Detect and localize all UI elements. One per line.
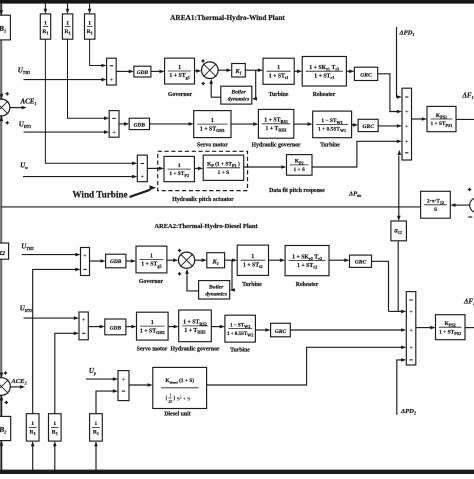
svg-text:1 + STRS1: 1 + STRS1	[264, 118, 288, 125]
svg-text:1 + S: 1 + S	[293, 167, 304, 173]
wire: 1/R1 a to sum S13 minus input	[45, 39, 132, 163]
wire: S11 to GDB1	[116, 70, 129, 72]
svg-text:Governor: Governor	[139, 279, 164, 285]
wire: pitch block to Kp block	[194, 167, 198, 169]
svg-text:ΔF1: ΔF1	[462, 92, 474, 101]
sign + (B2 into ACE2)	[5, 401, 8, 404]
wire: X2 to K1 block (area2)	[195, 259, 203, 261]
sign + (tie into ACE2)	[4, 371, 7, 374]
sum SD (diesel input)	[118, 371, 129, 401]
wire: Governor1 to mixer X1	[195, 70, 198, 72]
svg-text:1 + SKr1 Tr1: 1 + SKr1 Tr1	[309, 65, 339, 72]
wire: Turbine2 to Reheater2	[269, 259, 281, 261]
block K1 (area1)	[232, 64, 246, 78]
svg-text:GDB: GDB	[137, 70, 149, 76]
svg-text:1 + S: 1 + S	[218, 170, 229, 176]
svg-text:1 − STW1: 1 − STW1	[321, 118, 342, 125]
svg-text:Governor: Governor	[168, 92, 193, 98]
svg-text:1 + STt2: 1 + STt2	[243, 262, 263, 269]
svg-text:1 + TRH1: 1 + TRH1	[265, 126, 286, 133]
arrowhead: left bus tie into ACE1 bottom	[0, 116, 3, 121]
wire: dashed box output to data-fit block	[244, 166, 282, 168]
wire: KP2 output to right edge (dF2)	[465, 327, 474, 329]
wire: Reheater1 to GRC1	[346, 70, 350, 72]
wire: HydGov1 to hydro Turbine 1	[294, 123, 308, 125]
wire: U_TH1 into sum S11 plus input	[24, 79, 102, 81]
svg-text:1 + STt1: 1 + STt1	[269, 74, 289, 81]
wire: top bus drop into 1/R1 b	[67, 4, 69, 10]
sum S11 (thermal governor input, area1)	[107, 58, 117, 85]
block GDB4 (governor dead band, hydro area2)	[105, 319, 126, 335]
wire: Boiler dynamics area2 output up into X2 bottom	[187, 273, 199, 291]
wire: Turbine1 to Reheater1	[294, 70, 298, 72]
svg-text:48: 48	[168, 399, 172, 404]
svg-text:UTH1: UTH1	[18, 67, 31, 76]
sum block sum1 (area1 generation - load)	[402, 88, 412, 160]
svg-text:1: 1	[277, 65, 280, 71]
svg-text:ΔPD2: ΔPD2	[400, 408, 416, 416]
block hydro Turbine area2 (1-STW2)/(1+0.5STW2)	[225, 315, 256, 342]
sign + (B1 into ACE1)	[6, 92, 9, 95]
wire: tie junction down to a12 block	[398, 207, 400, 217]
wire: hydro Turbine2 to GRC4	[255, 329, 266, 331]
svg-text:UHY1: UHY1	[19, 121, 32, 130]
wire: GRC1 right and down into sum1 second input	[378, 74, 398, 112]
svg-text:ΔPtie: ΔPtie	[348, 191, 361, 199]
top border bar (area-1 frequency feedback bus)	[0, 0, 474, 4]
block GDB2 (governor dead band, hydro area1)	[129, 118, 149, 129]
svg-text:GDB: GDB	[110, 326, 122, 332]
arrow: Wind Turbine pointer to dashed box	[130, 190, 151, 197]
block Hydraulic governor area1 (1+STRS1)/(1+TRH1)	[258, 109, 293, 138]
svg-text:1: 1	[251, 254, 254, 260]
svg-text:ACE1: ACE1	[19, 98, 36, 107]
wire: bottom bus up into 1/R1 e	[54, 446, 56, 471]
wire: S21 to GDB3	[90, 260, 102, 262]
svg-text:Uw: Uw	[20, 161, 28, 170]
svg-text:+: +	[82, 317, 86, 324]
sign - on tie circle	[468, 216, 472, 218]
block GDB1 (governor dead band, thermal area1)	[134, 66, 151, 77]
wire: K1 area2 to Turbine2 with boiler tap	[225, 259, 233, 261]
svg-text:Diesel unit: Diesel unit	[164, 411, 190, 417]
dashed box Hydraulic pitch actuator	[158, 151, 248, 190]
svg-text:H2: H2	[0, 251, 5, 257]
svg-text:1 + STg1: 1 + STg1	[169, 73, 189, 80]
block B1 (clipped at left edge)	[0, 15, 10, 40]
wire: GRC2 to sum1 third input	[378, 125, 397, 127]
wire: hydro Turbine1 to GRC2	[352, 124, 354, 126]
block a12	[391, 221, 407, 241]
sum block sum2 (area2 generation - load)	[406, 292, 416, 365]
svg-text:dynamics: dynamics	[228, 97, 250, 103]
block Boiler dynamics (area2)	[199, 281, 230, 299]
wire: GDB3 to Governor2	[126, 260, 132, 262]
svg-text:UHY2: UHY2	[20, 305, 33, 314]
wire: 1/R1 f up to SD minus input	[96, 391, 114, 414]
svg-text:Turbine: Turbine	[320, 143, 340, 149]
svg-text:GRC: GRC	[360, 72, 372, 78]
svg-text:1: 1	[178, 65, 181, 71]
wire: 1/R1 b to sum S12 minus input	[68, 39, 105, 118]
arrowhead: B1 output down into ACE1 top	[0, 94, 3, 99]
wire: tie circle into T12 block	[455, 204, 470, 206]
arrowhead: left bus down into ACE2 top	[0, 373, 3, 378]
wire: top bus drop into B1	[0, 4, 2, 11]
wire: X1 to K1 block (area1)	[218, 69, 227, 71]
sign + (tie into ACE1)	[6, 121, 9, 124]
svg-text:1: 1	[31, 421, 34, 427]
wire: GDB4 to Servo motor 2	[126, 326, 132, 328]
svg-text:Servo motor: Servo motor	[137, 347, 168, 353]
wire: Diesel output right and up into sum2 fourth input	[207, 347, 402, 385]
svg-text:Turbine: Turbine	[230, 348, 250, 354]
svg-text:1 − STW2: 1 − STW2	[230, 323, 250, 329]
wire: tie-line up into sum1 bottom minus	[398, 156, 400, 207]
left edge vertical wire (B1-ACE1-tie-ACE2-B2 bus)	[0, 4, 2, 470]
svg-text:1 + SKr2 Tr2: 1 + SKr2 Tr2	[292, 254, 322, 261]
block Diesel unit Kdiesel(1+S)/((1/48)S^2+S)	[153, 367, 207, 408]
wire: U_HY1 into sum S12 plus input	[24, 131, 105, 133]
wire: SD to Diesel unit block	[129, 384, 148, 386]
wire: B2 up into ACE2 bottom	[1, 400, 3, 417]
block Hydraulic governor area2 (1+STRS2)/(1+TRH2)	[179, 310, 212, 342]
wire: KP1 output to right edge (dF1)	[456, 118, 474, 120]
wire: top bus drop into 1/R1 c	[89, 4, 91, 10]
block GRC2 (area1 hydro)	[358, 119, 378, 131]
block GRC1 (area1 thermal)	[354, 67, 377, 80]
block Servo motor area2 1/(1+STGH2)	[137, 312, 169, 340]
block KP1/(1+STP1) power system area1	[427, 106, 456, 131]
svg-text:1 + STGH1: 1 + STGH1	[200, 126, 225, 133]
wire: K1 to Turbine1 with boiler tap junction	[245, 69, 258, 71]
wire: U_p into diesel sum plus input	[86, 378, 114, 380]
svg-text:): )	[173, 395, 175, 402]
svg-text:1 + STP2: 1 + STP2	[169, 171, 189, 178]
svg-text:1 + STPS2: 1 + STPS2	[439, 329, 461, 336]
svg-text:+: +	[83, 253, 87, 260]
block GDB3 (governor dead band, thermal area2)	[106, 254, 126, 268]
svg-text:GRC: GRC	[362, 124, 374, 130]
wire: GDB2 to Servo motor 1	[150, 123, 190, 125]
wire: top bus drop into 1/R1 a	[44, 4, 46, 10]
svg-text:Wind Turbine: Wind Turbine	[72, 190, 127, 200]
wire: tie line long horizontal to left edge	[1, 206, 420, 208]
block Boiler dynamics (area1)	[221, 86, 252, 104]
block GRC3 (area2 thermal)	[350, 255, 372, 267]
wire: U_TH2 into sum S21 plus input	[22, 254, 76, 256]
wire: GRC3 right and down to merge point	[372, 261, 389, 311]
block Reheater1 (1+SKr1Tr1)/(1+STr1)	[302, 57, 346, 87]
svg-text:dynamics: dynamics	[205, 292, 227, 298]
svg-text:Data fit pitch response: Data fit pitch response	[269, 188, 325, 194]
svg-text:R1: R1	[93, 430, 99, 437]
svg-text:+: +	[140, 174, 144, 181]
svg-text:1: 1	[66, 20, 69, 26]
svg-text:Boiler: Boiler	[230, 90, 246, 96]
block Turbine2 1/(1+STt2)	[237, 245, 268, 275]
svg-text:1: 1	[88, 20, 91, 26]
wire: S13 into dashed hydraulic pitch actuator box	[147, 167, 159, 169]
svg-text:ACE2: ACE2	[10, 378, 26, 386]
block K1 (area2)	[207, 253, 225, 268]
svg-text:1: 1	[178, 163, 181, 169]
svg-text:1 + 0.5STW2: 1 + 0.5STW2	[227, 332, 254, 338]
wire: GDB1 to Governor1	[151, 70, 160, 72]
svg-text:+: +	[405, 109, 409, 116]
wire: data-fit block right, up, into sum1 fourth input	[312, 141, 398, 167]
wire: sum2 output to KP2 block	[416, 327, 431, 329]
svg-text:S2 + S: S2 + S	[177, 396, 191, 403]
wire: U_w into sum S13 plus input	[23, 176, 133, 178]
svg-text:Up: Up	[89, 367, 96, 376]
block data fit KP2/(1+S)	[287, 155, 313, 176]
block GRC4 (area2 hydro)	[271, 323, 291, 337]
block Governor2 1/(1+STg2)	[136, 246, 167, 273]
svg-text:1 + STg2: 1 + STg2	[141, 262, 161, 269]
svg-text:GDB: GDB	[110, 259, 122, 265]
svg-text:1 + STRS2: 1 + STRS2	[183, 320, 207, 327]
wire: sum1 output to KP1 block	[412, 118, 423, 120]
block Reheater2 (1+SKr2Tr2)/(1+STr2)	[285, 246, 329, 276]
node tie summing circle (clipped at right edge)	[470, 198, 474, 213]
mixer X2 (governor + boiler, area2)	[179, 252, 195, 268]
wire: 1/R1 d up to S21 minus input	[33, 269, 76, 413]
sum S21 (thermal governor input, area2)	[81, 248, 90, 276]
sign + on tie circle	[468, 188, 471, 191]
sum S22 (hydro governor input, area2)	[79, 312, 88, 340]
wire: S12 to GDB2	[119, 123, 125, 125]
svg-text:Hydraulic pitch actuator: Hydraulic pitch actuator	[172, 197, 234, 203]
svg-text:Boiler: Boiler	[208, 284, 224, 290]
wire: Boiler dynamics output up into X1 bottom	[211, 83, 221, 97]
svg-text:1 + STGH2: 1 + STGH2	[140, 328, 165, 335]
sign + (boiler into X1)	[202, 82, 205, 85]
svg-text:1 + 0.5STW1: 1 + 0.5STW1	[318, 127, 346, 134]
svg-text:Turbine: Turbine	[269, 92, 289, 98]
svg-text:Reheater: Reheater	[296, 282, 319, 288]
block hydro Turbine area1 (1-STW1)/(1+0.5STW1)	[313, 111, 352, 138]
svg-text:AREA2:Thermal-Hydro-Diesel Pla: AREA2:Thermal-Hydro-Diesel Plant	[154, 223, 258, 230]
wire: 1/R1 e up to S22 minus input	[55, 333, 75, 413]
svg-text:KP2: KP2	[295, 159, 304, 166]
svg-text:1: 1	[53, 421, 56, 427]
svg-text:GRC: GRC	[355, 260, 367, 266]
svg-text:1: 1	[151, 320, 154, 326]
svg-text:ΔPD1: ΔPD1	[399, 30, 415, 38]
wire: HydGov2 to hydro Turbine 2	[211, 326, 220, 328]
wire: tap down into Boiler dynamics (area1) right side	[255, 70, 258, 99]
block Turbine1 1/(1+STt1)	[263, 58, 294, 84]
wire: bottom bus up into 1/R1 f	[95, 446, 97, 471]
svg-text:1 + STr2: 1 + STr2	[297, 263, 317, 270]
svg-text:GDB: GDB	[134, 122, 146, 128]
svg-text:+: +	[409, 309, 413, 316]
svg-text:GRC: GRC	[275, 329, 287, 335]
svg-text:Turbine: Turbine	[242, 282, 262, 288]
wire: a12 down to merge with GRC3 line into sum2	[397, 241, 399, 312]
wire: tap down into Boiler dynamics (area2) right side	[231, 260, 233, 290]
svg-text:+: +	[112, 129, 116, 136]
svg-text:1: 1	[211, 118, 214, 124]
svg-text:Hydraulic governor: Hydraulic governor	[170, 347, 220, 353]
mixer X1 (governor + boiler, area1)	[202, 62, 219, 79]
svg-text:+: +	[409, 327, 413, 334]
svg-text:AREA1:Thermal-Hydro-Wind Plant: AREA1:Thermal-Hydro-Wind Plant	[170, 13, 285, 22]
wire: GRC4 long wire into sum2 third input	[290, 329, 402, 331]
svg-text:Hydraulic governor: Hydraulic governor	[251, 143, 301, 149]
svg-text:R1: R1	[65, 29, 71, 36]
svg-text:1 + STPS1: 1 + STPS1	[430, 121, 452, 128]
wire: bottom bus up into 1/R1 d	[32, 446, 34, 471]
svg-text:UTH2: UTH2	[21, 243, 34, 252]
svg-text:S: S	[434, 207, 437, 213]
svg-text:+: +	[110, 76, 114, 83]
wire: Governor2 to mixer X2	[167, 259, 174, 261]
svg-text:Reheater: Reheater	[313, 92, 336, 98]
block 2*pi*T12/S tie line	[421, 191, 451, 218]
svg-text:R1: R1	[42, 29, 48, 36]
block Servo motor area1 1/(1+STGH1)	[194, 111, 231, 138]
sign + (governor into X1)	[201, 59, 204, 62]
sum S13 (wind pitch input)	[137, 155, 147, 182]
svg-text:ΔF2: ΔF2	[463, 298, 474, 307]
wire: U_HY2 into sum S22 plus input	[24, 317, 75, 319]
wire: Servo1 to Hydraulic governor 1	[231, 123, 254, 125]
svg-text:R1: R1	[30, 430, 36, 437]
block B2 (clipped at left edge)	[0, 416, 11, 440]
svg-text:R1: R1	[87, 29, 93, 36]
sum S12 (hydro governor input, area1)	[109, 111, 119, 138]
svg-text:1 + TRH2: 1 + TRH2	[184, 328, 205, 335]
block partial controller box at left edge (area2, clipped)	[0, 243, 9, 259]
sign + (governor into X2)	[178, 249, 181, 252]
svg-text:KPS2: KPS2	[445, 321, 456, 328]
svg-text:KPS1: KPS1	[436, 113, 447, 120]
sign + (boiler into X2)	[178, 272, 181, 275]
svg-text:Servo motor: Servo motor	[197, 143, 228, 149]
svg-text:1: 1	[44, 20, 47, 26]
svg-text:1: 1	[150, 253, 153, 259]
block Kp(1+STP1)/(1+S)	[203, 155, 244, 180]
svg-text:1 + STr1: 1 + STr1	[314, 74, 334, 81]
svg-text:1: 1	[95, 421, 98, 427]
wire: S22 to GDB4	[88, 326, 100, 328]
svg-text:+: +	[405, 123, 409, 130]
svg-text:+: +	[405, 138, 409, 145]
block wind pitch 1/(1+STP2)	[164, 156, 194, 181]
svg-text:1: 1	[169, 393, 171, 398]
svg-text:R1: R1	[52, 430, 58, 437]
bottom border bar (area-2 frequency feedback bus)	[0, 470, 474, 474]
wire: Reheater2 to GRC3	[329, 259, 345, 261]
svg-text:2·π·T12: 2·π·T12	[427, 199, 444, 206]
wire: bottom bus up into B2	[1, 445, 3, 471]
wire: 1/R1 c to sum S11 minus input	[90, 39, 102, 65]
svg-text:+: +	[409, 344, 413, 351]
block KP2/(1+STP2) power system area2	[436, 315, 466, 340]
block Governor1 1/(1+STg1)	[165, 58, 195, 84]
wire: Servo2 to Hydraulic governor 2	[168, 326, 174, 328]
wire: merged tie+GRC3 into sum2 second input	[389, 310, 402, 312]
svg-text:+: +	[122, 376, 126, 383]
